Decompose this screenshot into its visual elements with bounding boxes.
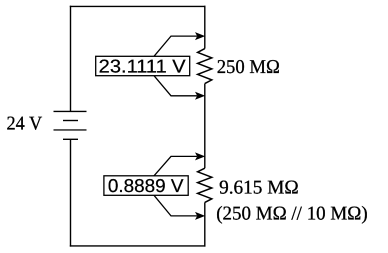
battery B1 <box>54 111 87 139</box>
voltmeter V2 box 0.8889 V <box>104 175 188 196</box>
voltmeter V1 lead bottom arrow <box>154 76 205 100</box>
svg-text:23.1111 V: 23.1111 V <box>99 56 187 77</box>
resistor R1 <box>198 49 212 84</box>
svg-text:(250 MΩ // 10 MΩ): (250 MΩ // 10 MΩ) <box>216 203 368 224</box>
resistor R2 <box>198 168 212 202</box>
wire right lower <box>204 202 206 246</box>
voltmeter V2 lead bottom arrow <box>154 195 205 220</box>
voltmeter V1 lead top arrow <box>154 32 205 56</box>
svg-text:250 MΩ: 250 MΩ <box>217 57 280 78</box>
wire top <box>70 5 206 7</box>
voltmeter V2 lead top arrow <box>154 152 205 175</box>
wire right middle <box>204 84 206 169</box>
voltmeter V1 box 23.1111 V <box>96 56 190 77</box>
svg-text:9.615 MΩ: 9.615 MΩ <box>219 178 299 199</box>
wire left lower <box>70 139 72 246</box>
svg-text:0.8889 V: 0.8889 V <box>108 175 184 196</box>
svg-text:24 V: 24 V <box>7 114 43 135</box>
wire right upper <box>204 6 206 49</box>
wire left upper <box>70 6 72 112</box>
wire bottom <box>70 245 206 247</box>
